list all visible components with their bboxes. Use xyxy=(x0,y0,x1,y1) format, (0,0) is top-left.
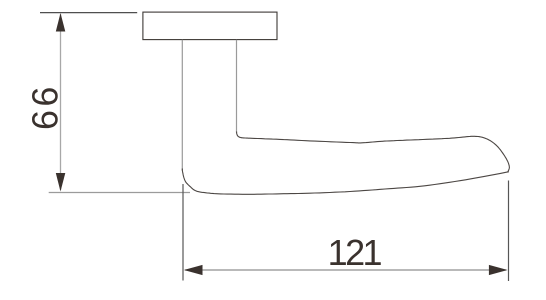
svg-text:66: 66 xyxy=(25,83,66,130)
svg-text:121: 121 xyxy=(328,232,382,273)
